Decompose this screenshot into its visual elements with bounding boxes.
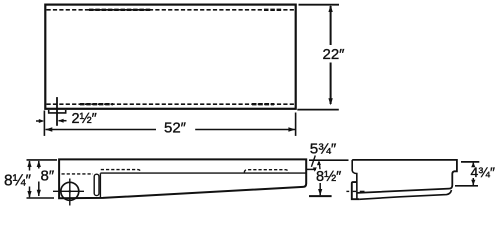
top view hidden line lower chunky part bbox=[80, 103, 113, 105]
extension line 22in bottom bbox=[297, 109, 339, 111]
svg-text:4¾″: 4¾″ bbox=[471, 164, 495, 180]
side view step front edge bbox=[99, 173, 101, 197]
top view hidden line upper bbox=[47, 9, 295, 11]
drain tick left bbox=[346, 190, 349, 192]
extension line 22in top bbox=[299, 4, 340, 6]
dimension 22in line lower bbox=[328, 63, 332, 106]
top view hidden line lower bbox=[47, 103, 295, 105]
side view hidden line A bbox=[62, 173, 94, 175]
drain centerline horizontal bbox=[53, 190, 84, 192]
extension line left edge bbox=[43, 111, 45, 136]
side view step top line bbox=[100, 172, 305, 174]
side view drain circle bbox=[61, 182, 79, 200]
svg-text:22″: 22″ bbox=[323, 46, 346, 63]
svg-text:52″: 52″ bbox=[164, 120, 187, 137]
extension line top bridge bbox=[309, 159, 349, 161]
extension line 4.75in top bbox=[461, 161, 479, 163]
svg-text:8¼″: 8¼″ bbox=[4, 173, 32, 190]
drain center dot bbox=[69, 190, 72, 193]
end view foot bbox=[352, 182, 359, 199]
extension line 8.5in bottom bbox=[309, 195, 332, 197]
side view bracket capsule bbox=[94, 174, 99, 195]
side view tank outline bbox=[59, 159, 306, 198]
top view sump tab bbox=[49, 110, 66, 113]
svg-text:8½″: 8½″ bbox=[316, 169, 341, 185]
dimension 5.75in up arrow bbox=[317, 161, 321, 169]
extension line 8in bottom bbox=[27, 197, 55, 199]
dimension 8in line bbox=[37, 160, 41, 196]
svg-text:2½″: 2½″ bbox=[72, 111, 97, 127]
dimension 2.5in right arrow bbox=[58, 119, 66, 123]
extension line 8in top bbox=[27, 159, 58, 161]
dimension 5.75in slash bbox=[311, 156, 315, 167]
dimension 8.25in line bbox=[27, 160, 31, 197]
side view hidden line B bbox=[101, 170, 141, 173]
extension line right edge bbox=[295, 113, 297, 136]
end view bottom near edge bbox=[359, 190, 451, 199]
drain tick middle bbox=[353, 190, 356, 192]
extension line 4.75in bottom bbox=[455, 185, 478, 187]
svg-text:8″: 8″ bbox=[41, 167, 55, 184]
top view hidden line upper chunky part bbox=[89, 9, 152, 11]
dimension 2.5in left arrow bbox=[36, 119, 44, 123]
dimension 52in line right part bbox=[195, 127, 295, 132]
top view tank outline bbox=[45, 5, 295, 109]
extension line tick 2.5in bbox=[56, 97, 58, 126]
end view outline bbox=[352, 160, 457, 193]
dimension 5.75in down arrow bbox=[313, 167, 317, 171]
dimension 52in line left part bbox=[45, 127, 156, 132]
dimension 4.75in line bbox=[471, 162, 475, 185]
extension line 5.75in lower bbox=[307, 168, 317, 170]
end view left edge and step bbox=[352, 160, 357, 199]
drain tick right bbox=[360, 190, 365, 192]
side view hidden line C bbox=[244, 170, 288, 173]
dimension 8.5in line bbox=[318, 183, 322, 196]
dimension 22in line upper bbox=[328, 5, 332, 45]
drain centerline vertical bbox=[69, 179, 71, 206]
svg-text:5¾″: 5¾″ bbox=[310, 140, 337, 157]
